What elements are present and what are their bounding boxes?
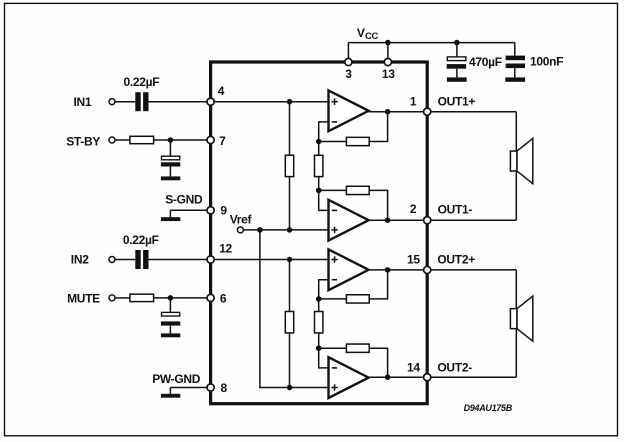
svg-text:13: 13 (382, 67, 395, 81)
svg-text:6: 6 (220, 291, 227, 305)
svg-text:8: 8 (221, 381, 228, 395)
svg-text:D94AU175B: D94AU175B (464, 403, 513, 413)
svg-text:15: 15 (407, 253, 420, 267)
svg-text:Vref: Vref (230, 212, 253, 226)
svg-text:100nF: 100nF (530, 55, 563, 69)
svg-text:7: 7 (219, 134, 226, 148)
svg-text:MUTE: MUTE (67, 291, 100, 305)
svg-text:OUT2+: OUT2+ (437, 253, 475, 267)
svg-text:OUT2-: OUT2- (437, 360, 472, 374)
svg-text:V: V (357, 26, 365, 40)
svg-text:12: 12 (219, 242, 232, 256)
svg-text:CC: CC (365, 31, 379, 42)
svg-text:IN1: IN1 (74, 95, 92, 109)
svg-text:2: 2 (410, 202, 417, 216)
svg-text:4: 4 (218, 84, 225, 98)
svg-text:470µF: 470µF (469, 55, 502, 69)
svg-text:OUT1+: OUT1+ (438, 95, 476, 109)
svg-text:S-GND: S-GND (165, 193, 203, 207)
svg-text:0.22µF: 0.22µF (124, 75, 160, 89)
svg-text:IN2: IN2 (71, 253, 89, 267)
svg-text:14: 14 (407, 360, 420, 374)
svg-text:3: 3 (345, 67, 352, 81)
svg-text:1: 1 (410, 95, 417, 109)
svg-text:9: 9 (220, 203, 227, 217)
svg-text:OUT1-: OUT1- (438, 203, 473, 217)
svg-text:PW-GND: PW-GND (152, 372, 201, 386)
svg-text:ST-BY: ST-BY (66, 135, 100, 149)
svg-text:0.22µF: 0.22µF (123, 233, 159, 247)
